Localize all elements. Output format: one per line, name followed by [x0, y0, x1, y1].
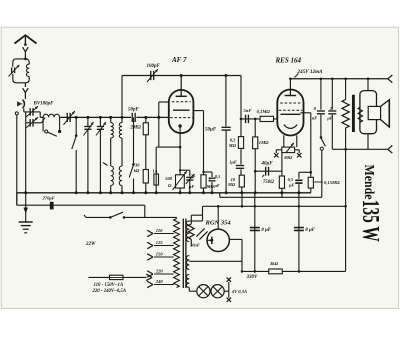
bus1 ground — [17, 192, 311, 194]
pot 80 end wires — [276, 149, 282, 151]
wire down at 241 — [240, 76, 242, 119]
lamp 1 — [197, 285, 210, 298]
antenna plug and socket — [17, 101, 21, 106]
resistor 750 — [279, 176, 284, 188]
svg-text:0,1MΩ: 0,1MΩ — [257, 109, 271, 114]
svg-text:8 µF: 8 µF — [261, 228, 271, 233]
svg-text:MΩ: MΩ — [206, 184, 215, 189]
svg-text:0,15MΩ: 0,15MΩ — [324, 180, 340, 185]
cap 5nF — [245, 115, 247, 123]
svg-text:50µF: 50µF — [205, 128, 217, 133]
svg-text:110: 110 — [156, 228, 163, 233]
svg-text:22W: 22W — [85, 242, 96, 247]
svg-text:3kΩ: 3kΩ — [269, 261, 279, 266]
trimmer BV180pF upper — [29, 108, 31, 116]
antenna tuned circuit box — [13, 59, 26, 83]
zigzag RGN — [202, 206, 204, 215]
sec mid lead — [189, 260, 242, 262]
wire wiper down — [281, 153, 283, 176]
svg-text:0,5: 0,5 — [215, 174, 221, 179]
svg-text:AF 7: AF 7 — [171, 56, 187, 64]
svg-text:150: 150 — [156, 252, 164, 257]
resistor 0.15M — [308, 177, 313, 188]
RES164 filament pins — [283, 135, 285, 147]
svg-text:Ω: Ω — [168, 183, 172, 188]
svg-text:kΩ: kΩ — [134, 168, 140, 173]
AF7 top cap — [180, 76, 182, 97]
tap 240 — [154, 284, 174, 286]
speaker winding — [358, 107, 362, 122]
switch S2 — [133, 117, 135, 164]
bus1 left join — [16, 193, 18, 205]
antenna — [15, 35, 37, 43]
AF7 anode wire — [193, 110, 203, 112]
wire cathode L — [156, 146, 180, 148]
svg-text:µF: µF — [213, 183, 220, 188]
wire pot to bus — [179, 188, 181, 193]
antenna connector — [23, 47, 29, 52]
RES164 cathode arc — [284, 125, 297, 129]
wire trimmer lower down — [25, 123, 27, 193]
wire grid1 L — [159, 101, 169, 103]
RGN354 filament — [211, 237, 213, 244]
band coil — [43, 114, 60, 117]
resistor 0.1M — [260, 116, 273, 121]
cap 8uF 1 — [250, 227, 260, 229]
pot 80 hum — [282, 147, 295, 153]
svg-text:nF: nF — [312, 116, 317, 121]
resistor 2M — [145, 117, 147, 122]
svg-text:0,5: 0,5 — [288, 177, 294, 182]
tube AF7 envelope — [169, 90, 194, 133]
cap 8uF 2 — [294, 227, 304, 229]
svg-text:µF: µF — [288, 183, 295, 188]
transformer core — [182, 219, 184, 288]
fuse 1A — [155, 147, 157, 174]
svg-text:240: 240 — [155, 279, 164, 284]
switch tone — [320, 136, 323, 139]
speaker cone — [381, 100, 390, 127]
tube RGN354 — [217, 206, 219, 229]
svg-text:135 W: 135 W — [357, 200, 383, 242]
connector arrow B+ — [388, 75, 393, 79]
speaker driver — [368, 106, 380, 119]
svg-text:20: 20 — [190, 173, 196, 178]
junction dots main wire — [75, 116, 78, 119]
cap 50uF — [225, 76, 227, 127]
speaker frame stubs — [367, 79, 369, 91]
wire left vertical — [16, 115, 18, 205]
trimmer C at 88 — [87, 117, 89, 126]
svg-text:80Ω: 80Ω — [284, 155, 293, 160]
wire grid RES164 — [241, 118, 277, 120]
RES164 top cap — [289, 79, 291, 96]
IF coil upper left — [110, 117, 112, 122]
ground symbol — [25, 193, 27, 222]
label Mende — [362, 165, 378, 200]
secondary mid — [186, 256, 189, 270]
svg-text:1MΩ: 1MΩ — [259, 140, 269, 145]
cap 270pF — [50, 202, 54, 210]
svg-text:750Ω: 750Ω — [263, 180, 274, 185]
wire top 100pF rail — [122, 75, 241, 77]
svg-text:10nF: 10nF — [190, 243, 200, 248]
secondary top 4V — [186, 221, 189, 242]
wire 2uF to speaker — [332, 148, 345, 150]
tap 150 — [154, 256, 174, 258]
cap 40uF — [255, 170, 282, 172]
svg-text:125: 125 — [156, 240, 164, 245]
wire lineC down — [144, 205, 146, 217]
pot 500 — [176, 175, 185, 188]
line 330V — [242, 270, 346, 272]
AF7 grid3 dashed — [170, 117, 192, 119]
svg-text:220: 220 — [155, 269, 164, 274]
lamp x marks — [227, 277, 231, 281]
series variable capacitor — [66, 113, 68, 122]
wire field down — [345, 149, 347, 271]
svg-text:MΩ: MΩ — [227, 182, 236, 187]
svg-text:2MΩ: 2MΩ — [130, 126, 142, 131]
cap 0.5uF out — [299, 171, 311, 173]
svg-text:100pF: 100pF — [147, 64, 161, 69]
svg-text:1A: 1A — [152, 168, 157, 173]
ganged tuning circle — [15, 112, 18, 115]
coil in box — [26, 64, 29, 76]
capacitor 50pF tuning — [131, 113, 133, 122]
resistor 3k — [269, 269, 283, 274]
svg-text:270pF: 270pF — [42, 196, 55, 201]
label 135W — [357, 200, 383, 242]
trimmer C at 100 — [99, 117, 101, 126]
sec top leads — [189, 220, 202, 222]
variable capacitor in box — [11, 67, 13, 73]
svg-text:330V: 330V — [246, 275, 259, 280]
IF coil lower left — [111, 166, 114, 186]
svg-text:220 - 240V~0,5A: 220 - 240V~0,5A — [92, 289, 127, 294]
lamp 2 — [211, 285, 224, 298]
RGN354 cathode wire — [229, 238, 242, 240]
wire trimmers to main — [39, 112, 41, 118]
wire main y117 — [40, 116, 43, 118]
bus3 verticals — [241, 193, 243, 207]
cap 0.5uF AF7 — [204, 171, 213, 173]
svg-text:RES 164: RES 164 — [275, 57, 302, 65]
cap 2uF — [331, 79, 333, 110]
speaker transformer core — [352, 95, 355, 132]
connector below box — [24, 83, 26, 87]
tap 125 — [154, 245, 174, 247]
IF coil lower right — [119, 166, 122, 186]
switch S1 — [75, 117, 77, 135]
RES164 grid dashed 1 — [280, 102, 301, 104]
resistor 1M anode — [201, 175, 206, 188]
wire socket to trimmer — [23, 108, 25, 112]
AF7 anode bar — [173, 109, 190, 111]
mains switch — [86, 216, 110, 218]
tap 220 — [154, 273, 174, 275]
speaker frame — [360, 91, 377, 134]
resistor 1M grid — [254, 119, 256, 137]
svg-text:500: 500 — [165, 176, 173, 181]
svg-text:8 µF: 8 µF — [305, 228, 315, 233]
svg-text:µF: µF — [188, 184, 195, 189]
bus3 rail — [203, 205, 346, 207]
wire speaker bottom — [346, 148, 388, 150]
lamp wire mid — [210, 290, 211, 292]
svg-text:1µF: 1µF — [229, 160, 237, 165]
svg-text:40µF: 40µF — [261, 161, 274, 166]
lamp wire right — [224, 290, 229, 292]
cap 10nF diag — [196, 228, 204, 236]
AF7 grid1 dashed — [172, 101, 191, 103]
lamp wire left — [188, 288, 190, 292]
field coil resistor — [345, 79, 347, 100]
svg-text:Mende: Mende — [362, 165, 378, 200]
svg-text:50pF: 50pF — [128, 108, 140, 113]
bus1 dots — [24, 191, 27, 194]
svg-text:110 - 150V~1A: 110 - 150V~1A — [94, 283, 124, 288]
cap 20uF — [180, 169, 190, 171]
wire B+ rail — [290, 78, 387, 80]
lineC mains — [17, 204, 145, 206]
svg-text:MΩ: MΩ — [228, 143, 237, 148]
svg-text:245V 12mA: 245V 12mA — [297, 69, 324, 75]
transformer primary — [174, 219, 180, 288]
RES164 anode wire — [300, 112, 310, 114]
tap 110 — [154, 233, 174, 235]
RES164 anode bar — [281, 113, 301, 115]
heater x marks — [274, 153, 278, 157]
svg-text:5nF: 5nF — [244, 108, 252, 113]
bus2 heater — [220, 196, 322, 198]
trimmer 100pF — [150, 71, 152, 80]
IF coil upper right — [121, 117, 123, 122]
svg-text:µF: µF — [326, 116, 333, 121]
RES164 grid dashed 2 — [279, 109, 302, 111]
cap 8nF — [320, 79, 322, 110]
mains lead fuse — [89, 276, 110, 278]
svg-text:BV180pF: BV180pF — [33, 102, 55, 107]
AF7 cathode — [178, 124, 181, 127]
svg-text:30: 30 — [134, 163, 140, 168]
svg-text:4V 0,3A: 4V 0,3A — [231, 289, 247, 294]
label 0.15M — [314, 181, 323, 183]
tube RES164 envelope — [277, 90, 303, 136]
resistor 30k — [143, 170, 148, 184]
trimmer lower — [25, 112, 27, 123]
secondary bottom — [186, 275, 189, 288]
svg-text:0,2: 0,2 — [230, 138, 236, 143]
chain 0.2M 1uF 10M — [240, 119, 242, 137]
